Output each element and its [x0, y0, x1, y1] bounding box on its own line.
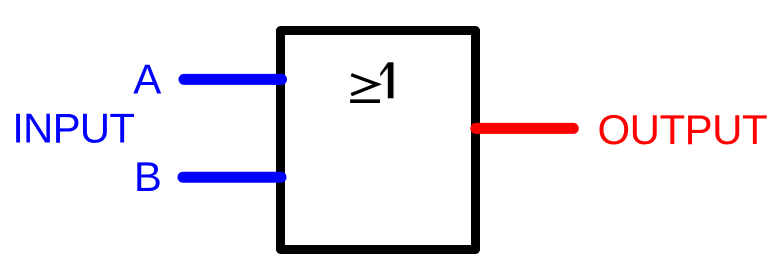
svg-text:B: B — [134, 153, 162, 200]
wire input B — [183, 172, 281, 183]
gate function label 1: stem — [388, 62, 394, 98]
gate function label 1: flag — [380, 62, 388, 76]
svg-text:INPUT: INPUT — [12, 104, 134, 151]
gate function symbol: greater-equal chevron — [351, 75, 377, 95]
wire input A — [184, 74, 282, 85]
OR gate body U1 (IEC rectangle) — [281, 31, 476, 250]
wire output — [476, 123, 574, 134]
svg-text:A: A — [133, 56, 161, 103]
svg-text:OUTPUT: OUTPUT — [598, 106, 768, 153]
gate function symbol: greater-equal underline — [350, 99, 380, 103]
